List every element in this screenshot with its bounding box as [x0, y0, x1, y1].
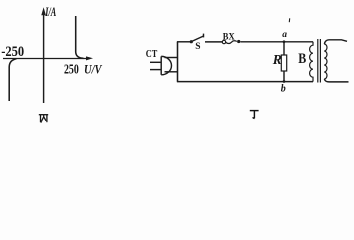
wire left bus vertical — [177, 42, 179, 82]
resistor R box — [281, 55, 286, 71]
wire top rail: switch to fuse — [205, 41, 222, 43]
label B (transformer) — [298, 51, 306, 67]
label U/V — [84, 62, 103, 76]
caption 丁 — [250, 111, 259, 119]
svg-text:B: B — [298, 51, 306, 67]
wire plug to bus (top) — [165, 57, 178, 59]
stray tick mark — [288, 18, 290, 22]
fuse BX wavy element — [226, 41, 237, 44]
wire top rail: fuse to node a — [240, 41, 284, 43]
wire bottom rail — [177, 81, 313, 83]
switch S contact dot — [190, 40, 193, 43]
svg-text:250: 250 — [64, 62, 79, 77]
transformer core — [318, 39, 321, 83]
svg-text:I/A: I/A — [45, 5, 57, 19]
transformer primary coil — [310, 42, 313, 82]
label -250 — [1, 44, 24, 60]
svg-text:a: a — [282, 30, 287, 40]
svg-text:CT: CT — [146, 49, 158, 60]
wire plug to bus (bottom) — [165, 71, 178, 73]
svg-text:U/V: U/V — [84, 62, 103, 76]
transformer secondary coil — [324, 44, 327, 79]
switch S blade — [192, 34, 204, 42]
caption 丙 — [39, 115, 48, 123]
U axis arrowhead — [86, 56, 93, 60]
node a dot — [283, 40, 286, 43]
svg-text:R: R — [272, 52, 282, 67]
label R — [272, 52, 282, 67]
resistor R bottom lead — [283, 71, 285, 82]
svg-text:b: b — [281, 84, 286, 95]
fuse BX right terminal dot — [237, 40, 240, 43]
fuse BX left terminal circle — [222, 40, 225, 43]
svg-text:S: S — [195, 42, 200, 52]
plug CT — [150, 56, 171, 74]
I axis (vertical) of graph — [43, 11, 45, 103]
svg-text:-250: -250 — [1, 44, 24, 60]
wire top rail: node a to transformer — [284, 41, 313, 43]
label S — [195, 42, 200, 52]
label BX — [223, 32, 235, 42]
label b — [281, 84, 286, 95]
resistor R top lead — [283, 42, 285, 55]
label CT — [146, 49, 158, 60]
curve positive branch — [76, 16, 84, 58]
wire top rail: bus to switch — [177, 41, 190, 43]
curve negative branch — [9, 59, 16, 101]
secondary top wire — [324, 40, 347, 44]
node b dot — [283, 80, 286, 83]
I axis arrowhead — [41, 7, 46, 15]
secondary bottom wire — [324, 79, 348, 82]
label 250 — [64, 62, 79, 77]
label I/A — [45, 5, 57, 19]
svg-text:BX: BX — [223, 32, 235, 42]
U axis (horizontal) — [3, 58, 89, 60]
label a — [282, 30, 287, 40]
